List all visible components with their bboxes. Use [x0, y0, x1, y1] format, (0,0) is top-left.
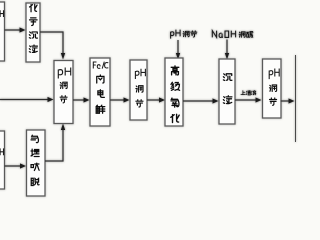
- paper background: [0, 0, 300, 200]
- ink core layer: [0, 2, 296, 196]
- scan halo layer: [0, 2, 296, 196]
